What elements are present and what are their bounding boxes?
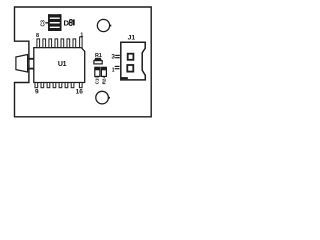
mounting hole bottom bbox=[96, 91, 109, 104]
mounting hole top bbox=[97, 19, 109, 31]
resistor R1 body bbox=[94, 58, 102, 61]
svg-text:J1: J1 bbox=[128, 35, 136, 42]
C3 lead dash bbox=[45, 22, 48, 23]
capacitor C3 body (barred rectangle) bbox=[45, 14, 61, 31]
connector J1 outline bbox=[121, 42, 146, 80]
capacitor C10 body bbox=[95, 67, 100, 76]
board outline bbox=[15, 7, 152, 117]
op-amp U1 body bbox=[34, 48, 85, 83]
svg-text:1: 1 bbox=[80, 32, 83, 38]
J1 polarity bar bbox=[122, 77, 128, 79]
svg-text:16: 16 bbox=[76, 89, 84, 96]
svg-text:1: 1 bbox=[112, 68, 115, 74]
svg-text:3: 3 bbox=[111, 54, 115, 61]
svg-text:9: 9 bbox=[35, 89, 39, 96]
svg-text:8: 8 bbox=[36, 33, 39, 39]
J1 pin 3 leads bbox=[115, 55, 120, 56]
J1 pad square bottom bbox=[127, 65, 133, 72]
J1 pad square top bbox=[128, 54, 134, 60]
svg-text:C3: C3 bbox=[40, 20, 46, 27]
resistor R24 body bbox=[101, 67, 106, 76]
connector P1 pin top bbox=[27, 58, 34, 60]
svg-text:R24: R24 bbox=[101, 76, 106, 85]
svg-text:D: D bbox=[64, 18, 70, 27]
U1 pin 1 (tall) bbox=[80, 37, 83, 48]
svg-text:C10: C10 bbox=[95, 76, 100, 85]
U1 bottom pins 9..16 bbox=[35, 83, 82, 88]
svg-text:U1: U1 bbox=[58, 61, 67, 68]
connector P1 body (left trapezoid plug) bbox=[16, 55, 28, 73]
J1 pin 1 leads bbox=[115, 66, 120, 67]
connector P1 pin bottom bbox=[27, 68, 34, 70]
U1 top pins 8..2 bbox=[37, 37, 82, 48]
